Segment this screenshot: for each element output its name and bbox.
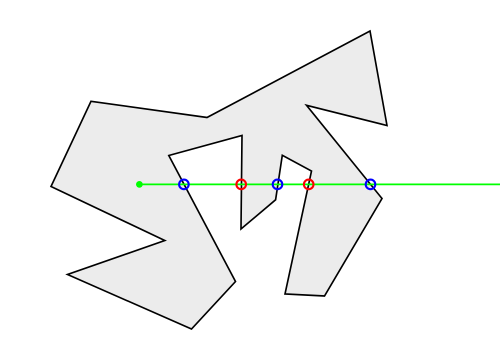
intersection marker blue circle 1 bbox=[179, 180, 189, 190]
ray (green horizontal line) bbox=[139, 183, 500, 185]
ray origin point (green dot) bbox=[136, 181, 143, 188]
intersection marker blue circle 3 bbox=[366, 180, 376, 190]
intersection marker blue circle 2 bbox=[273, 180, 283, 190]
intersection marker red circle 2 bbox=[304, 180, 314, 190]
intersection marker red circle 1 bbox=[236, 180, 246, 190]
concave polygon bbox=[51, 31, 387, 329]
